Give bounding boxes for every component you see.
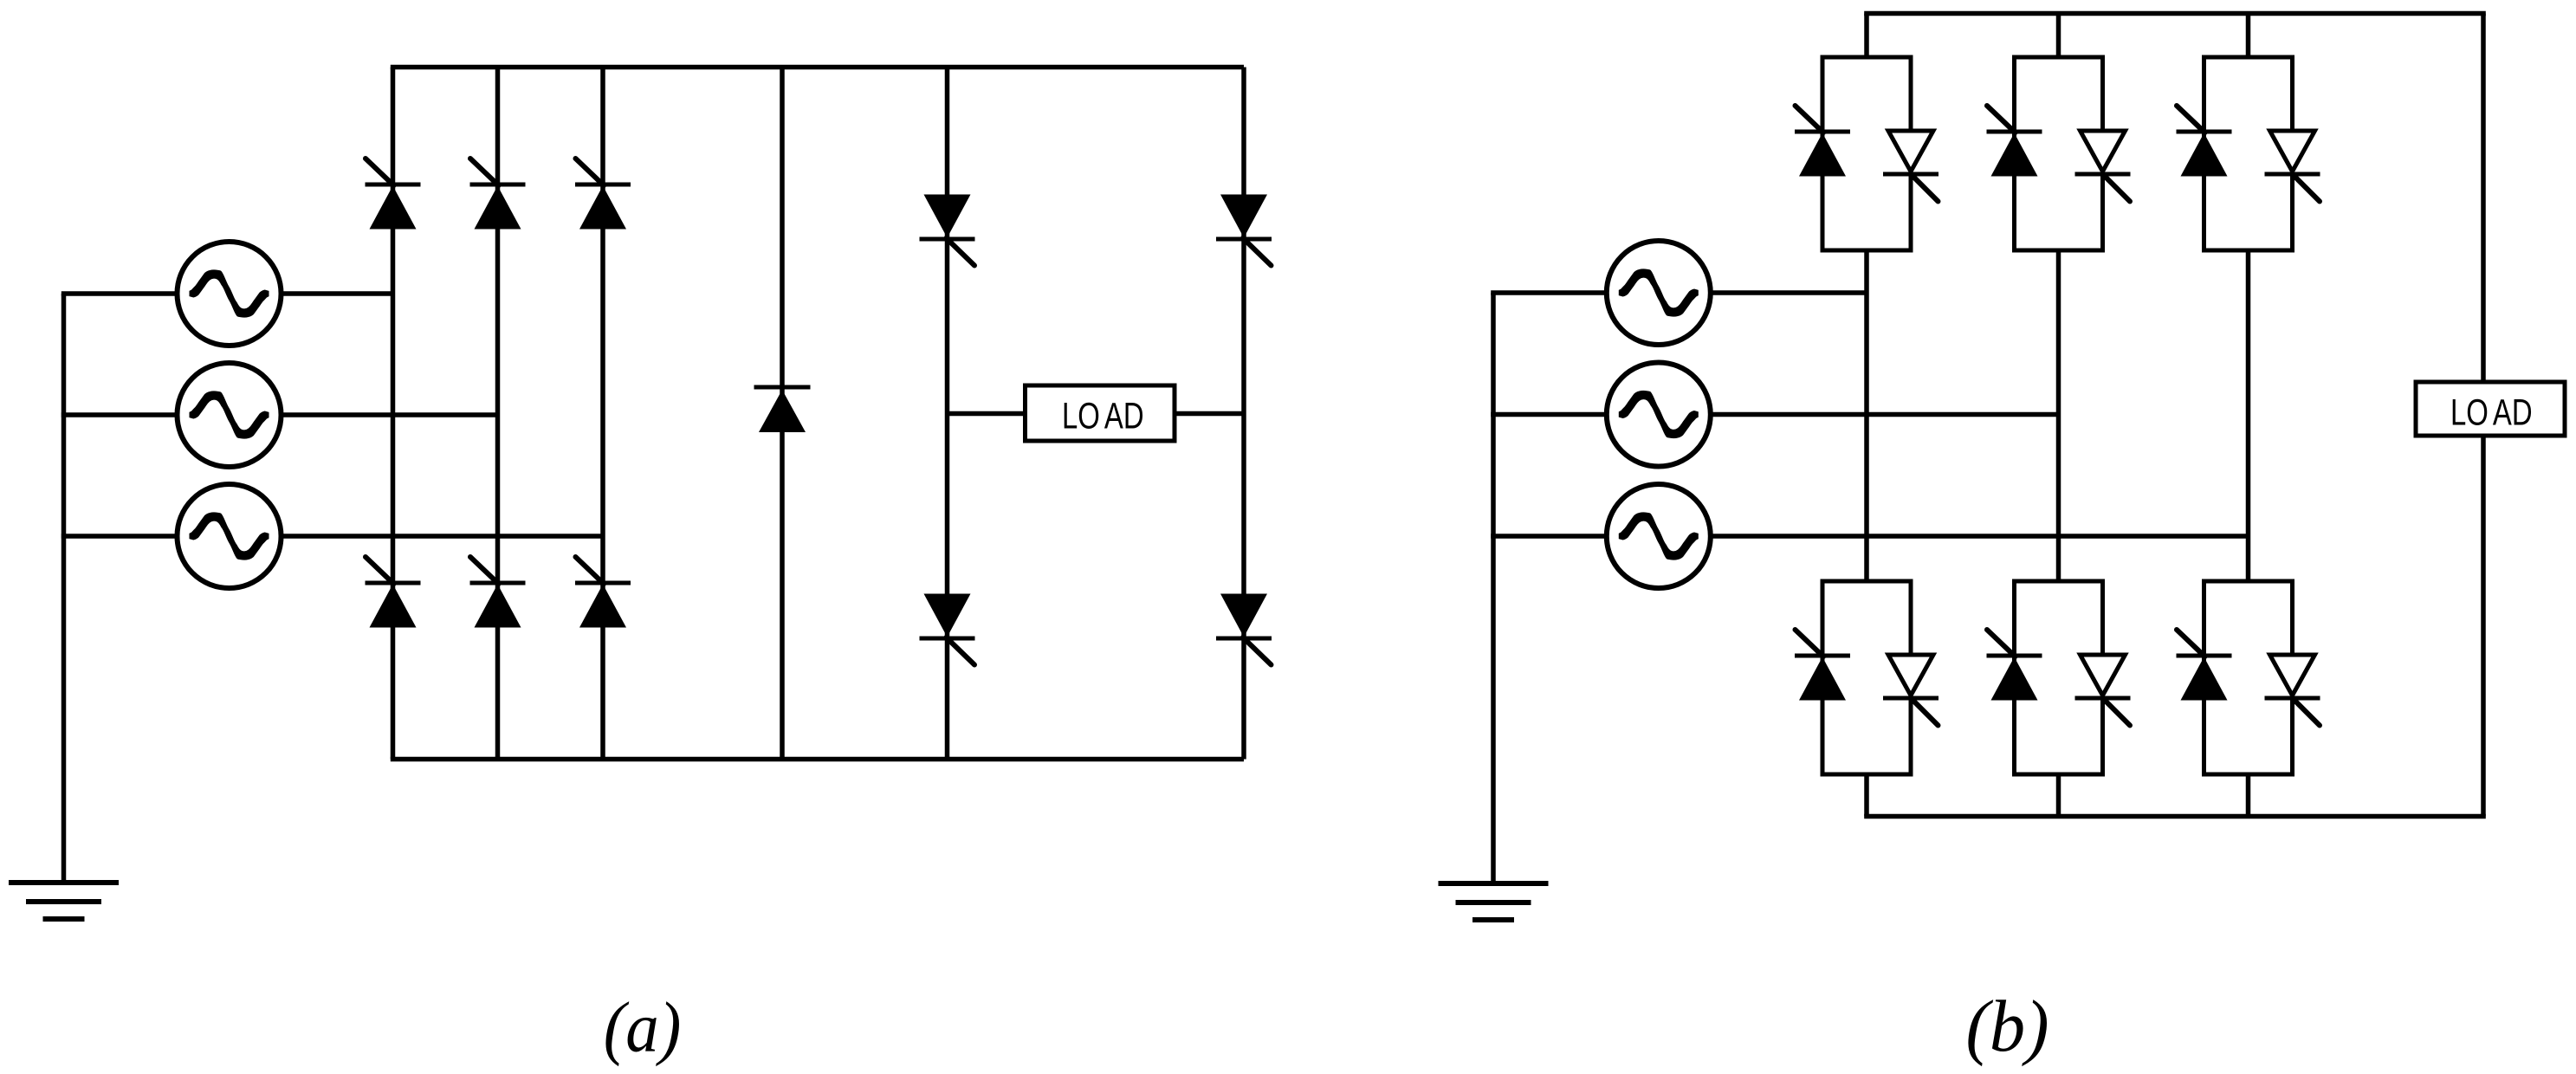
ground (a) [9, 883, 119, 919]
thyristor T4 [366, 557, 421, 628]
wire phase C feeder (a) [61, 534, 603, 539]
wire bottom bus of rectifier (a) [391, 757, 1244, 762]
wire phase leg column 1 (a) [391, 68, 396, 760]
wire phase A feeder (b) [1491, 290, 1867, 295]
diode D1 freewheeling [754, 387, 811, 432]
wire phase C feeder (b) [1491, 534, 2248, 539]
wire load left lead (a) [948, 411, 1026, 417]
wire phase column 2 stub bottom (b) [2056, 773, 2061, 817]
thyristor T9 [920, 594, 975, 665]
wire phase column 1 middle (b) [1864, 249, 1869, 583]
wire load right lead (a) [1175, 411, 1244, 417]
thyristor T1 [366, 159, 421, 230]
thyristor T2 [470, 159, 526, 230]
wire top bus (b) [1864, 11, 2486, 16]
wire output bridge leg 2 (a) [1241, 68, 1246, 760]
wire phase column 3 stub top (b) [2246, 14, 2251, 60]
wire phase A feeder (a) [61, 291, 393, 296]
wire top bus of rectifier (a) [391, 65, 1244, 70]
thyristor T3 [575, 159, 631, 230]
wire phase column 2 stub top (b) [2056, 14, 2061, 60]
wire bottom bus (b) [1864, 814, 2486, 819]
wire neutral drop to ground (a) [61, 294, 67, 883]
svg-text:(a): (a) [604, 988, 682, 1067]
wire phase leg column 3 (a) [600, 68, 605, 760]
wire phase B feeder (b) [1491, 412, 2058, 417]
wire phase column 1 stub bottom (b) [1864, 773, 1869, 817]
wire neutral drop to ground (b) [1491, 293, 1496, 883]
thyristor T6 [575, 557, 631, 628]
load box (a) [1026, 385, 1175, 441]
thyristor pair cell 4 (antiparallel SCRs) [1795, 581, 1938, 774]
wire output bridge leg 1 (a) [945, 68, 950, 760]
wire phase B feeder (a) [61, 412, 498, 417]
thyristor T5 [470, 557, 526, 628]
wire phase column 3 stub bottom (b) [2246, 773, 2251, 817]
thyristor T8 [1216, 195, 1272, 266]
thyristor T10 [1216, 594, 1272, 665]
ac source V6 [1607, 484, 1711, 588]
thyristor pair cell 6 (antiparallel SCRs) [2177, 581, 2320, 774]
thyristor pair cell 3 (antiparallel SCRs) [2177, 57, 2320, 250]
wire freewheeling diode branch (a) [780, 68, 785, 760]
ac source V3 [178, 484, 282, 588]
thyristor pair cell 2 (antiparallel SCRs) [1987, 57, 2131, 250]
wire right output riser upper (b) [2481, 14, 2486, 383]
thyristor pair cell 1 (antiparallel SCRs) [1795, 57, 1938, 250]
ac source V5 [1607, 363, 1711, 467]
ac source V1 [178, 242, 282, 346]
thyristor T7 [920, 195, 975, 266]
ac source V2 [178, 363, 282, 467]
wire phase column 1 stub top (b) [1864, 14, 1869, 60]
ground (b) [1439, 883, 1549, 920]
svg-text:(b): (b) [1965, 987, 2049, 1067]
wire phase column 3 middle (b) [2246, 249, 2251, 583]
thyristor pair cell 5 (antiparallel SCRs) [1987, 581, 2131, 774]
ac source V4 [1607, 241, 1711, 345]
wire right output riser lower (b) [2481, 436, 2486, 817]
load box (b) [2416, 382, 2565, 436]
wire phase leg column 2 (a) [495, 68, 501, 760]
wire phase column 2 middle (b) [2056, 249, 2061, 583]
